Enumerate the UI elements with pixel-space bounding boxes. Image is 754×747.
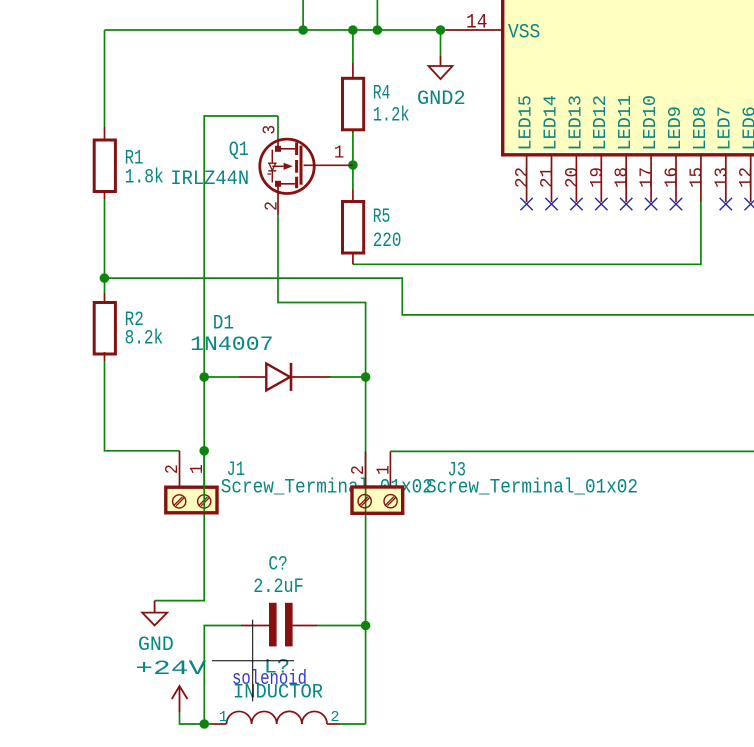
wire junction to GND2: [440, 30, 442, 56]
wire through J1 pin1: [203, 451, 205, 512]
svg-text:VSS: VSS: [508, 22, 540, 45]
no-connect pin 17: [645, 198, 657, 210]
svg-text:13: 13: [712, 167, 732, 188]
wire inductor pin2 to vertical: [340, 723, 366, 725]
junction gate divider: [348, 160, 358, 170]
svg-text:21: 21: [538, 167, 558, 188]
wire stub up at x303: [302, 0, 304, 30]
svg-text:LED8: LED8: [691, 106, 711, 150]
svg-text:R4: R4: [373, 82, 391, 105]
svg-text:12: 12: [737, 167, 754, 188]
svg-text:20: 20: [563, 167, 583, 188]
wire divider tap to right edge: [104, 278, 754, 315]
wire top rail to R1: [104, 30, 106, 127]
pin 17 (LED10): [638, 95, 661, 202]
wire D1 anode node to GND via J1 pin1: [155, 377, 205, 601]
svg-text:1: 1: [375, 465, 395, 475]
svg-text:2: 2: [163, 464, 183, 474]
no-connect pin 19: [595, 198, 607, 210]
connector J3 body: [352, 487, 403, 513]
wire D1 cathode node through J3 pin2 to inductor: [365, 377, 367, 724]
pin 14 VSS: [446, 11, 541, 44]
svg-text:LED10: LED10: [641, 95, 661, 151]
pin 21 (LED14): [538, 95, 561, 202]
wire Q1 drain to D1 cathode node: [278, 216, 366, 377]
pin 16 (LED9): [663, 106, 686, 202]
no-connect pin 12: [745, 198, 754, 210]
svg-text:Q1: Q1: [229, 139, 249, 162]
wire +24V symbol to inductor pin1: [180, 713, 212, 724]
resistor R5: [343, 202, 402, 254]
pin 13 (LED7): [712, 106, 735, 202]
svg-text:+24V: +24V: [135, 658, 206, 681]
svg-text:Screw_Terminal_01x02: Screw_Terminal_01x02: [426, 477, 638, 500]
wire J3 pin1 to right edge: [390, 450, 754, 452]
connector J3 pin2 lead: [365, 451, 367, 487]
svg-text:1: 1: [219, 709, 228, 726]
junction D1 anode: [199, 372, 209, 382]
resistor R2 lead bottom: [104, 352, 106, 361]
power symbol +24V: [172, 686, 188, 713]
svg-text:R5: R5: [373, 206, 391, 229]
pin 19 (LED12): [588, 95, 611, 202]
svg-text:18: 18: [613, 167, 633, 188]
svg-text:22: 22: [513, 167, 533, 188]
wire Q1 pin3 up: [277, 116, 279, 138]
resistor R4 lead bottom: [352, 129, 354, 133]
pin 18 (LED11): [613, 95, 636, 202]
resistor R5 lead top: [352, 190, 354, 202]
wire junction to R4: [352, 30, 354, 63]
svg-text:220: 220: [373, 230, 402, 253]
svg-text:LED12: LED12: [591, 95, 611, 151]
junction top rail B: [348, 25, 358, 35]
svg-text:15: 15: [687, 167, 707, 188]
svg-text:GND2: GND2: [417, 88, 466, 111]
pin 12 (LED6): [737, 106, 754, 202]
wire D1 anode lead: [204, 376, 240, 378]
no-connect pin 22: [520, 198, 532, 210]
no-connect pin 16: [670, 198, 682, 210]
svg-text:LED13: LED13: [566, 95, 586, 151]
junction top rail C: [373, 25, 383, 35]
resistor R4: [343, 78, 410, 130]
resistor R1 lead top: [104, 127, 106, 140]
svg-text:LED15: LED15: [517, 95, 537, 151]
svg-text:8.2k: 8.2k: [125, 327, 164, 350]
svg-text:LED9: LED9: [666, 106, 686, 150]
junction top rail GND2: [436, 25, 446, 35]
power symbol GND: [142, 601, 167, 626]
junction D1 cathode: [361, 372, 371, 382]
svg-text:solenoid: solenoid: [232, 668, 307, 691]
wire R2 bottom to J1 pin2: [105, 361, 180, 451]
svg-text:2: 2: [349, 465, 369, 475]
resistor R4 lead top: [352, 63, 354, 78]
connector J1 pin2 lead: [179, 451, 181, 487]
power symbol GND2: [429, 56, 453, 79]
resistor R5 lead bottom: [352, 253, 354, 264]
svg-text:14: 14: [466, 11, 488, 34]
wire R5 bottom to pin 15 LED8: [353, 202, 701, 264]
connector J1 Screw_Terminal_01x02: [166, 487, 217, 513]
wire through J3 pin2: [365, 451, 367, 513]
svg-text:3: 3: [260, 125, 280, 135]
resistor R1 lead bottom: [104, 192, 106, 200]
svg-text:1N4007: 1N4007: [190, 334, 273, 357]
wire R4 bottom to R5 top (gate node): [352, 132, 354, 190]
svg-text:IRLZ44N: IRLZ44N: [170, 168, 249, 191]
junction +24V inductor: [200, 719, 210, 729]
IC U2 body: [501, 0, 754, 155]
cursor crosshair: [212, 620, 294, 702]
wire D1 cathode lead: [330, 376, 366, 378]
svg-text:17: 17: [638, 167, 658, 188]
wire top rail VSS net: [105, 29, 446, 31]
wire C right to J3/solenoid net: [317, 625, 366, 627]
junction J1 pin1: [199, 446, 209, 456]
svg-text:GND: GND: [138, 634, 174, 657]
no-connect pin 21: [545, 198, 557, 210]
connector J3 pin1 lead: [389, 451, 391, 487]
svg-text:16: 16: [663, 167, 683, 188]
wire R1 bottom to R2 top: [104, 199, 106, 293]
diode D1 1N4007: [239, 363, 331, 391]
no-connect pin 18: [620, 198, 632, 210]
svg-text:1.8k: 1.8k: [125, 166, 164, 189]
pin 22 (LED15): [513, 95, 536, 202]
svg-text:2: 2: [331, 709, 340, 726]
transistor Q1 IRLZ44N: [260, 138, 353, 216]
wire Q1 source to D1 anode node: [204, 116, 278, 377]
pin 15 (LED8): [687, 106, 710, 202]
svg-text:1: 1: [334, 144, 345, 164]
connector J3 border and screws: [352, 487, 403, 513]
svg-text:LED14: LED14: [541, 95, 561, 151]
wire C left to +24V node: [204, 626, 241, 725]
resistor R1: [94, 140, 164, 192]
no-connect pin 13: [720, 198, 732, 210]
svg-text:19: 19: [588, 167, 608, 188]
junction divider tap: [100, 273, 110, 283]
pin 20 (LED13): [563, 95, 586, 202]
connector J1 pin1 lead: [203, 451, 205, 487]
svg-text:C?: C?: [268, 553, 288, 576]
resistor R2 lead top: [104, 293, 106, 303]
inductor L? solenoid: [212, 711, 340, 724]
svg-text:1.2k: 1.2k: [373, 104, 410, 127]
svg-text:LED6: LED6: [741, 106, 754, 150]
svg-text:D1: D1: [213, 313, 234, 336]
svg-text:2: 2: [263, 201, 283, 211]
no-connect pin 20: [570, 198, 582, 210]
junction C right: [361, 621, 371, 631]
capacitor C? 2.2uF: [241, 603, 317, 647]
wire stub up at x377: [376, 0, 378, 30]
svg-text:LED11: LED11: [616, 95, 636, 151]
junction top rail A: [298, 25, 308, 35]
resistor R2: [94, 303, 163, 355]
svg-text:LED7: LED7: [716, 106, 736, 150]
svg-text:2.2uF: 2.2uF: [253, 576, 303, 599]
